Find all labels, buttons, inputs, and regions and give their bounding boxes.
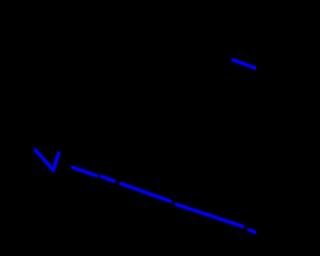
dash E bbox=[249, 230, 258, 233]
V-shaped dip of dashed curve bbox=[35, 150, 58, 170]
solid blue line segment (top right) bbox=[233, 60, 258, 69]
soft glow underlay for blue curve strokes bbox=[35, 60, 258, 233]
dash D bbox=[176, 204, 243, 226]
dash C bbox=[121, 184, 171, 202]
dash B bbox=[102, 177, 115, 182]
dash A bbox=[73, 167, 97, 175]
chart canvas bbox=[0, 0, 256, 256]
